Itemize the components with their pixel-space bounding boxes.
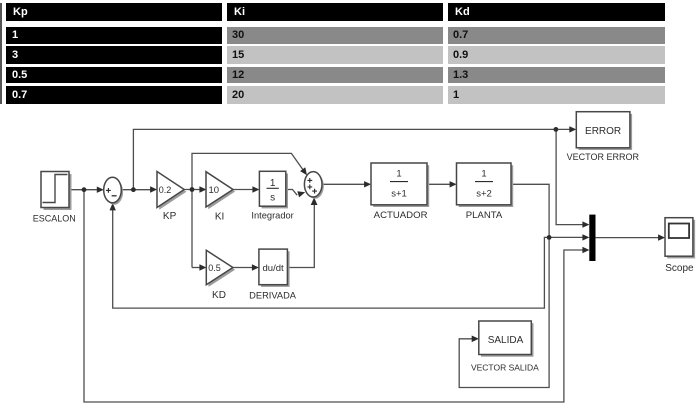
wire: salida loop from output node down, left, up into SALIDA: [459, 237, 549, 387]
junction node: PID split after KP: [190, 187, 195, 192]
wire: derivative branch into KD: [192, 267, 200, 269]
arrowhead into DERIVADA: [252, 264, 259, 270]
row2 Ki=15: [227, 46, 443, 64]
row2 Kd=0.9: [448, 46, 665, 64]
arrowhead into PLANTA: [450, 181, 457, 187]
arrowhead into KD: [199, 264, 206, 270]
table header Ki: [227, 3, 443, 20]
row1 Kd=0.7: [448, 27, 665, 43]
table header Kp: [6, 3, 222, 20]
wire: feedback from output node down, left and up into sum1 minus: [113, 210, 549, 308]
svg-text:SALIDA: SALIDA: [488, 335, 524, 346]
svg-text:DERIVADA: DERIVADA: [249, 290, 297, 300]
svg-text:Integrador: Integrador: [251, 211, 293, 221]
block Scope: [665, 218, 695, 259]
wire: step branch down, along bottom, up to mux input 3: [84, 190, 583, 402]
table left border: [0, 3, 2, 103]
junction node: plant output split: [547, 235, 552, 240]
gain KI (10): [206, 172, 235, 210]
svg-text:10: 10: [209, 185, 220, 196]
arrowhead D path up into sum2: [311, 197, 318, 205]
wire: KI to Integrador: [233, 189, 254, 191]
row4 Ki=20: [227, 86, 443, 104]
arrowhead into Integrador: [252, 186, 259, 192]
svg-text:0.2: 0.2: [159, 185, 172, 195]
sum block sum1: [104, 177, 123, 205]
arrowhead into KP: [150, 186, 157, 192]
svg-text:1: 1: [481, 169, 486, 180]
svg-text:PLANTA: PLANTA: [466, 210, 503, 221]
arrowhead into ACTUADOR: [364, 181, 371, 187]
wire: error branch up and right to ERROR block: [133, 129, 570, 189]
svg-text:KD: KD: [212, 290, 226, 301]
wire: PLANTA output right and down to output node: [511, 184, 583, 237]
block PLANTA (1/(s+2)): [457, 163, 514, 207]
block ESCALON (step source): [41, 172, 72, 211]
junction node: step branch: [82, 187, 87, 192]
arrowhead into SALIDA: [472, 336, 479, 343]
junction node: error branch after sum1: [131, 187, 136, 192]
row3 Ki=12: [227, 67, 443, 83]
svg-text:ERROR: ERROR: [585, 126, 621, 137]
row2 Kp=3: [6, 46, 222, 64]
row4 Kd=1: [448, 86, 665, 104]
wire: sum2 output to ACTUADOR: [322, 183, 365, 185]
wire: KP output to KI input: [184, 189, 200, 191]
svg-text:1: 1: [270, 178, 276, 189]
mux: [589, 215, 595, 261]
block DERIVADA (du/dt): [259, 249, 290, 287]
block Integrador (1/s): [259, 171, 288, 208]
block ACTUADOR (1/(s+1)): [371, 163, 429, 207]
gain KD (0.5): [206, 250, 235, 287]
table header Kd: [448, 3, 665, 20]
svg-text:ACTUADOR: ACTUADOR: [374, 210, 428, 221]
svg-text:s+1: s+1: [391, 189, 407, 200]
arrowhead into sum1: [97, 187, 104, 193]
arrowhead mux input 1: [582, 221, 589, 227]
wire: P path up over KI to sum2 upper-left: [192, 153, 303, 267]
arrowhead mux input 2: [582, 234, 589, 240]
svg-text:0.5: 0.5: [208, 263, 221, 273]
wire: error line down to mux input 1: [556, 129, 583, 224]
svg-text:KP: KP: [163, 211, 177, 222]
wire: ACTUADOR to PLANTA: [427, 183, 450, 185]
svg-text:VECTOR SALIDA: VECTOR SALIDA: [471, 362, 539, 372]
block ERROR (to workspace): [576, 112, 632, 150]
wire: KD to DERIVADA: [233, 267, 253, 269]
svg-text:du/dt: du/dt: [263, 263, 284, 274]
arrowhead feedback up into sum1 minus: [110, 203, 116, 211]
svg-text:Scope: Scope: [665, 263, 694, 274]
block SALIDA (to workspace): [479, 321, 534, 357]
wire: Integrador output to sum2 left: [286, 190, 297, 196]
svg-text:1: 1: [396, 169, 401, 180]
row4 Kp=0.7: [6, 86, 222, 104]
row3 Kp=0.5: [6, 67, 222, 83]
svg-text:s+2: s+2: [476, 189, 492, 200]
row1 Ki=30: [227, 27, 443, 43]
svg-text:KI: KI: [215, 211, 224, 222]
arrowhead into Scope: [658, 234, 665, 240]
sum block sum2: [304, 172, 323, 199]
arrowhead mux input 3: [582, 247, 589, 253]
row1 Kp=1: [6, 27, 222, 43]
svg-text:s: s: [270, 193, 275, 204]
junction node: error to ERROR block and mux: [554, 127, 559, 132]
svg-text:ESCALON: ESCALON: [33, 213, 76, 223]
wire: DERIVADA output up to sum2 bottom: [288, 204, 315, 267]
wire: mux output to Scope: [596, 237, 659, 239]
svg-text:VECTOR ERROR: VECTOR ERROR: [567, 152, 640, 162]
wire: sum1 output to KP: [121, 189, 151, 191]
wire: step output to sum1: [69, 189, 98, 191]
arrowhead Integrador into sum2: [297, 191, 305, 197]
arrowhead into KI: [199, 186, 206, 192]
gain KP (0.2): [157, 172, 186, 210]
row3 Kd=1.3: [448, 67, 665, 83]
arrowhead P path into sum2: [300, 167, 307, 175]
arrowhead into ERROR block: [569, 126, 576, 132]
